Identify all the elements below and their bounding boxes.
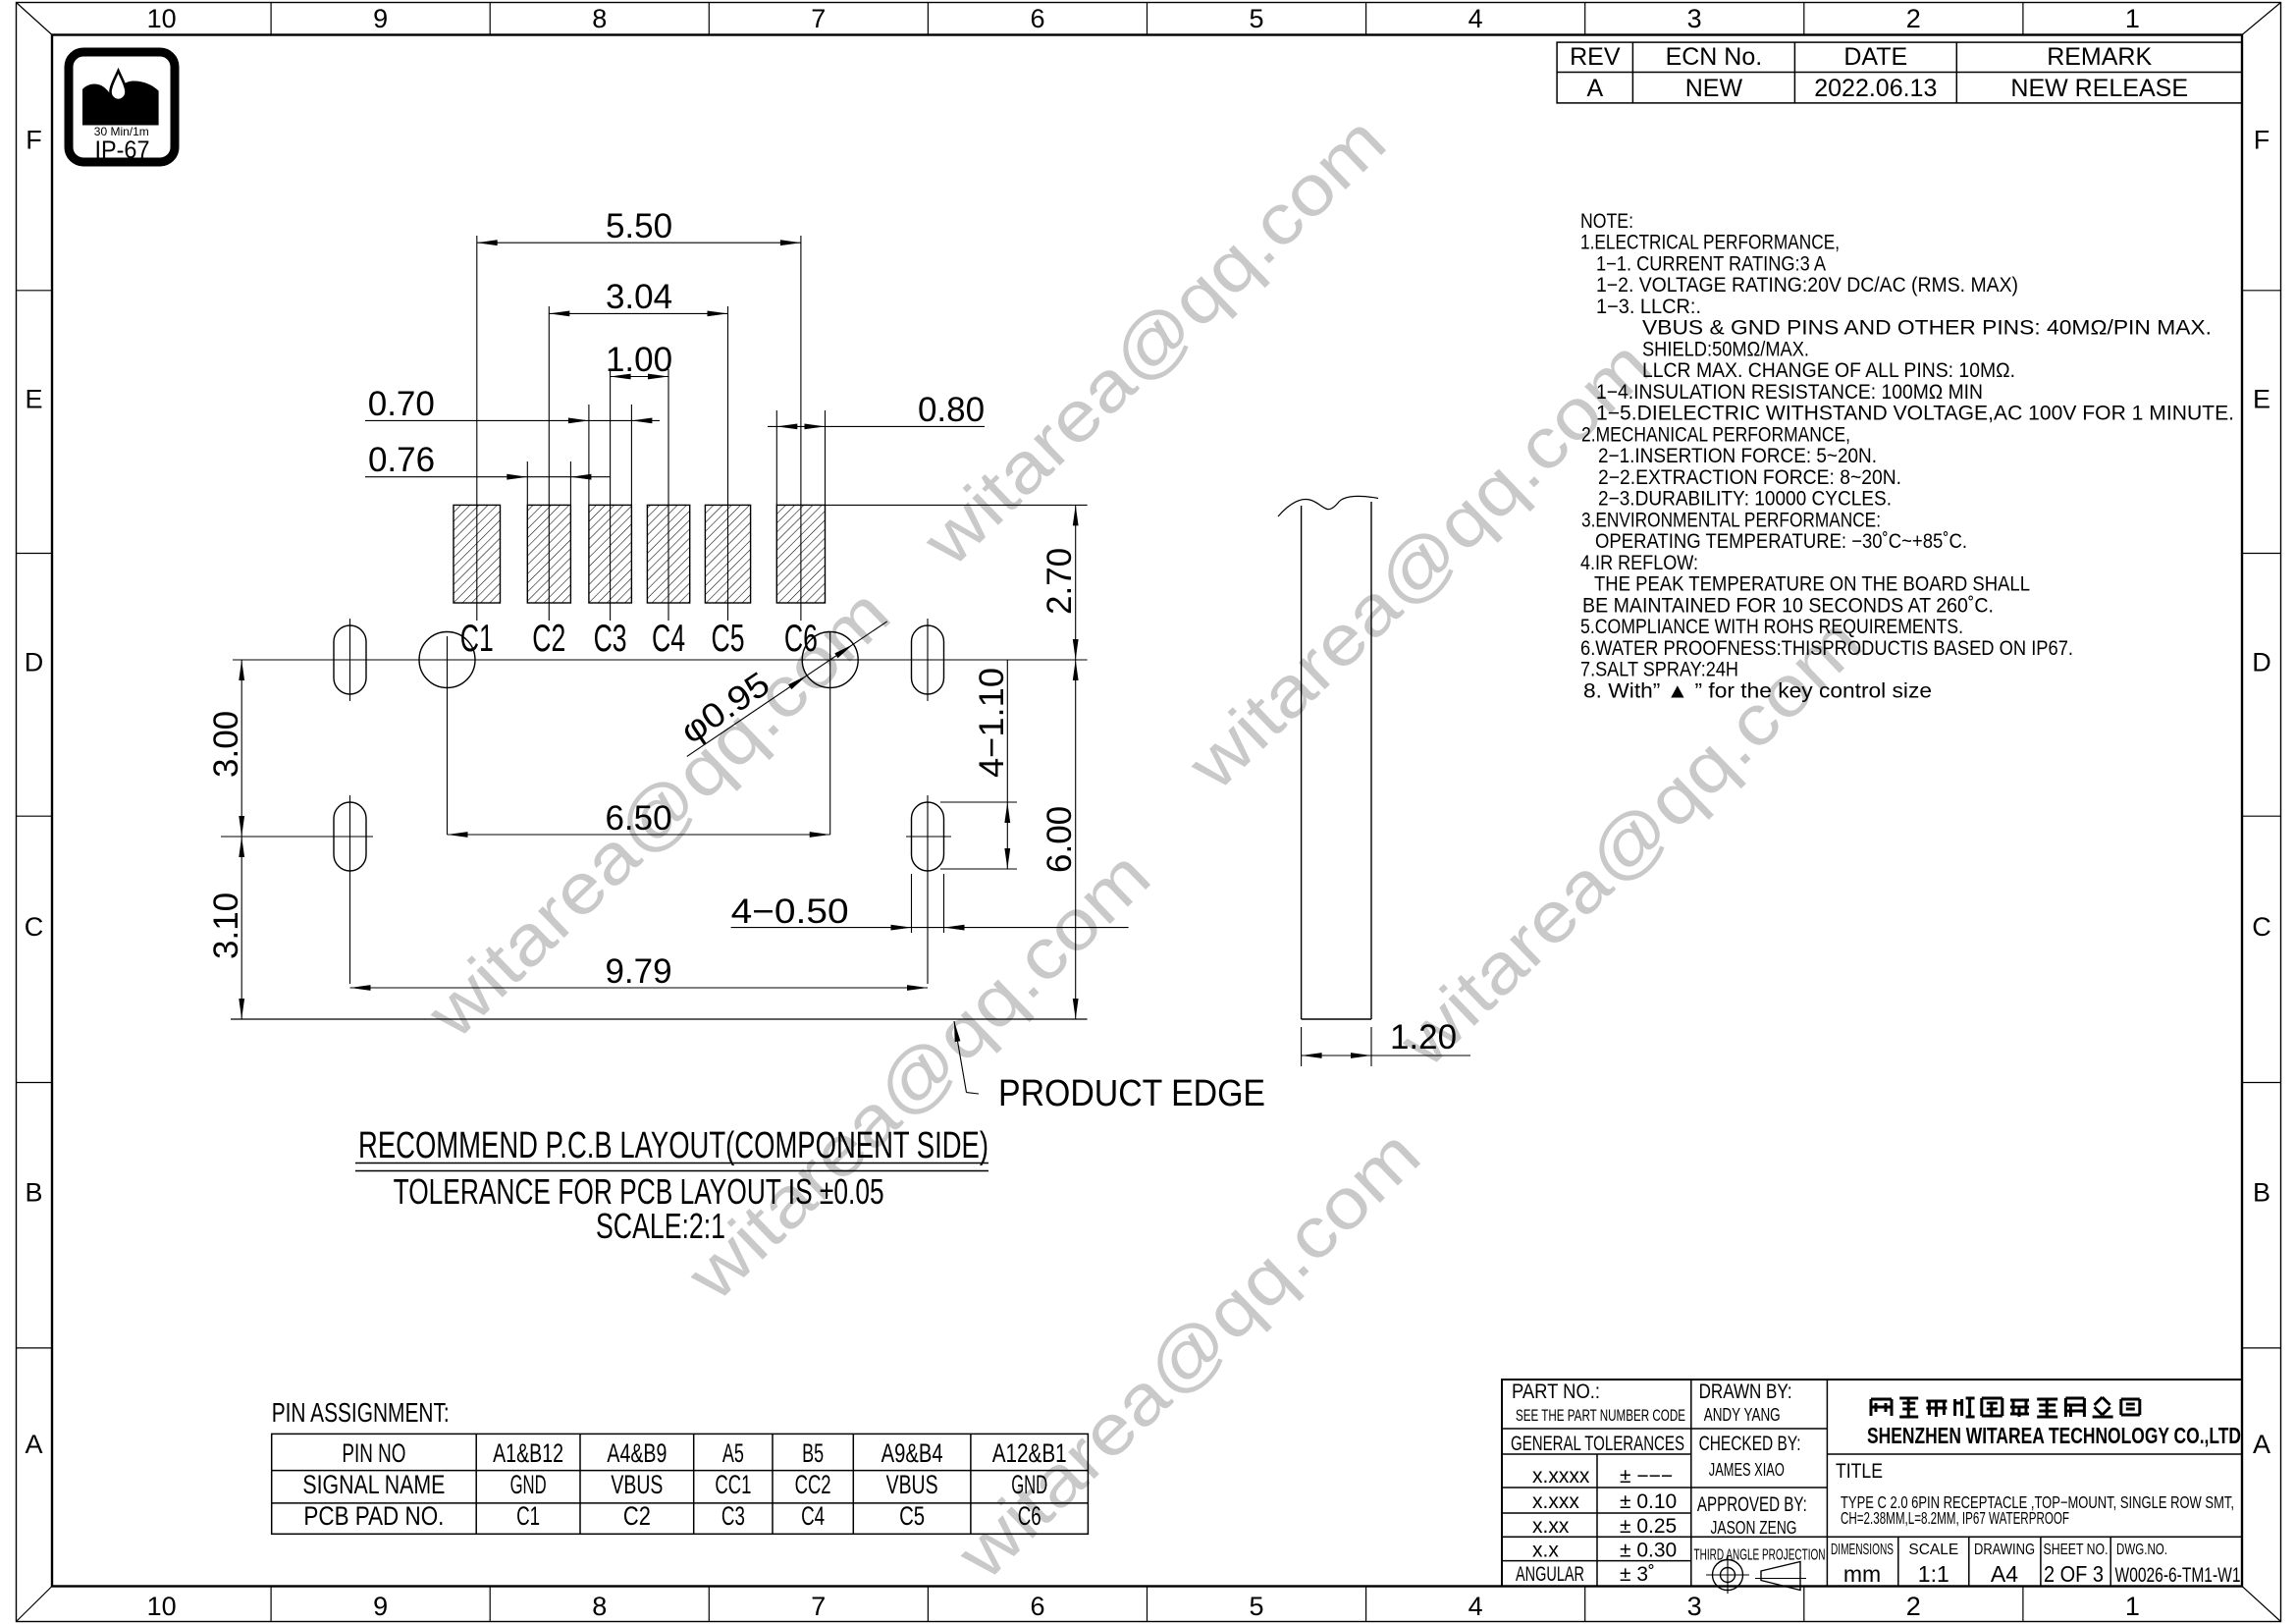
- oval pad bottom-left: [334, 802, 366, 871]
- watermark 2 witarea@qq.com: [1173, 325, 1666, 805]
- oval bottom-right horizontal centerline: [906, 836, 951, 838]
- svg-text:REV: REV: [1570, 43, 1621, 71]
- svg-text:2: 2: [1906, 4, 1921, 33]
- svg-text:NEW: NEW: [1685, 75, 1743, 102]
- svg-text:C4: C4: [652, 618, 685, 660]
- svg-text:x.xx: x.xx: [1532, 1515, 1570, 1538]
- svg-text:9: 9: [373, 1592, 388, 1621]
- svg-text:9.79: 9.79: [605, 952, 671, 991]
- oval pad top-right: [912, 625, 944, 694]
- svg-text:ECN No.: ECN No.: [1666, 43, 1763, 71]
- svg-text:PRODUCT EDGE: PRODUCT EDGE: [998, 1073, 1265, 1114]
- svg-text:E: E: [2253, 385, 2270, 414]
- oval pad top-left: [334, 625, 366, 694]
- svg-text:8: 8: [592, 4, 607, 33]
- svg-text:C2: C2: [532, 618, 565, 660]
- pin assignment table: [272, 1434, 1089, 1534]
- svg-text:SHENZHEN WITAREA TECHNOLOGY CO: SHENZHEN WITAREA TECHNOLOGY CO.,LTD: [1867, 1423, 2241, 1448]
- svg-text:1−1. CURRENT RATING:3 A: 1−1. CURRENT RATING:3 A: [1596, 253, 1826, 276]
- dimension 2.70: [826, 505, 1088, 660]
- svg-text:± 0.25: ± 0.25: [1620, 1515, 1677, 1538]
- dimension 3.00: [207, 660, 245, 837]
- svg-text:A9&B4: A9&B4: [881, 1438, 943, 1468]
- svg-text:B5: B5: [802, 1438, 824, 1468]
- svg-text:A1&B12: A1&B12: [493, 1438, 563, 1468]
- oval top-right centerline: [927, 619, 929, 701]
- svg-text:C6: C6: [1018, 1501, 1041, 1531]
- pad C4 centerline: [667, 369, 669, 621]
- pad C1 (hatched SMT pad): [454, 505, 501, 603]
- svg-text:SHEET NO.: SHEET NO.: [2044, 1542, 2109, 1558]
- svg-text:PCB PAD NO.: PCB PAD NO.: [303, 1501, 444, 1531]
- mounting hole circle left with center cross: [419, 632, 475, 688]
- svg-text:PIN ASSIGNMENT:: PIN ASSIGNMENT:: [272, 1397, 450, 1428]
- svg-text:3: 3: [1687, 1592, 1702, 1621]
- title block texts: [1511, 1380, 1826, 1586]
- pad C3 centerline: [610, 369, 612, 621]
- dimension 1.00: [606, 341, 672, 379]
- svg-text:7.SALT SPRAY:24H: 7.SALT SPRAY:24H: [1580, 659, 1738, 681]
- svg-text:± 0.30: ± 0.30: [1620, 1540, 1677, 1562]
- svg-text:x.x: x.x: [1532, 1540, 1559, 1562]
- company name (Chinese): [1871, 1397, 2140, 1417]
- svg-text:2: 2: [1906, 1592, 1921, 1621]
- dimension 5.50: [477, 207, 801, 245]
- watermark 6 witarea@qq.com: [1384, 602, 1877, 1082]
- svg-text:C4: C4: [801, 1501, 825, 1531]
- svg-text:2−2.EXTRACTION FORCE: 8~20: 2−2.EXTRACTION FORCE: 8~20N.: [1598, 466, 1901, 489]
- svg-text:4.IR REFLOW:: 4.IR REFLOW:: [1580, 552, 1698, 574]
- svg-text:5.50: 5.50: [606, 207, 672, 245]
- svg-text:1.ELECTRICAL PERFORMANCE,: 1.ELECTRICAL PERFORMANCE,: [1580, 232, 1840, 254]
- svg-text:1.00: 1.00: [606, 341, 672, 379]
- svg-text:DRAWING: DRAWING: [1974, 1542, 2035, 1558]
- svg-text:2−1.INSERTION FORCE: 5~20N.: 2−1.INSERTION FORCE: 5~20N.: [1598, 445, 1877, 467]
- svg-text:6: 6: [1030, 4, 1044, 33]
- svg-text:9: 9: [373, 4, 388, 33]
- dimension 6.00: [1041, 660, 1079, 1019]
- dimension 3.10: [207, 837, 245, 1019]
- svg-text:± 0.10: ± 0.10: [1620, 1490, 1677, 1513]
- svg-text:LLCR MAX. CHANGE OF ALL P: LLCR MAX. CHANGE OF ALL PINS: 10MΩ.: [1642, 359, 2015, 382]
- svg-text:B: B: [25, 1178, 42, 1208]
- svg-text:CC1: CC1: [715, 1470, 751, 1499]
- svg-text:5: 5: [1249, 1592, 1263, 1621]
- extension lines pad C2 edges: [526, 461, 528, 505]
- svg-text:ANDY YANG: ANDY YANG: [1704, 1405, 1781, 1425]
- view title: RECOMMEND P.C.B LAYOUT: [355, 1125, 988, 1171]
- svg-text:6: 6: [1030, 1592, 1044, 1621]
- svg-text:± 3˚: ± 3˚: [1620, 1563, 1655, 1586]
- svg-text:3.00: 3.00: [207, 711, 245, 778]
- svg-text:± −−−: ± −−−: [1620, 1465, 1673, 1488]
- watermark 1 witarea@qq.com: [908, 101, 1401, 581]
- svg-text:CH=2.38MM,L=8.2MM, IP67 WATE: CH=2.38MM,L=8.2MM, IP67 WATERPROOF: [1841, 1508, 2069, 1528]
- dimension 4-0.50: [731, 874, 1129, 933]
- svg-text:VBUS: VBUS: [611, 1470, 663, 1499]
- svg-text:B: B: [2253, 1178, 2270, 1208]
- dimension 4-1.10: [940, 660, 1017, 869]
- watermark 3 witarea@qq.com: [412, 573, 905, 1054]
- svg-text:F: F: [2254, 126, 2270, 155]
- svg-text:7: 7: [811, 4, 826, 33]
- svg-text:2.MECHANICAL PERFORMANCE,: 2.MECHANICAL PERFORMANCE,: [1581, 423, 1850, 446]
- extension lines pad C3 edges: [588, 405, 590, 505]
- svg-text:D: D: [25, 647, 44, 677]
- svg-text:4: 4: [1468, 4, 1483, 33]
- svg-text:C: C: [25, 912, 44, 942]
- dimension 1.20: [1302, 1018, 1470, 1066]
- svg-text:2.70: 2.70: [1041, 548, 1079, 615]
- svg-text:7: 7: [811, 1592, 826, 1621]
- oval bottom-left horizontal centerline: [221, 836, 373, 838]
- third angle projection symbol: [1706, 1556, 1806, 1594]
- oval bottom-right centerline: [927, 795, 929, 984]
- watermark 5 witarea@qq.com: [942, 1114, 1435, 1595]
- watermark 4 witarea@qq.com: [672, 836, 1165, 1316]
- title cell texts: [1836, 1460, 2234, 1528]
- svg-text:3.04: 3.04: [606, 278, 672, 316]
- svg-text:SEE THE PART NUMBER CODE: SEE THE PART NUMBER CODE: [1516, 1406, 1685, 1425]
- svg-text:6.50: 6.50: [605, 799, 671, 838]
- pad C1 centerline: [476, 236, 478, 621]
- svg-text:DRAWN BY:: DRAWN BY:: [1699, 1380, 1792, 1403]
- svg-text:REMARK: REMARK: [2047, 43, 2152, 71]
- svg-text:0.70: 0.70: [368, 385, 435, 423]
- svg-text:C5: C5: [899, 1501, 925, 1531]
- oval pad bottom-right: [912, 802, 944, 871]
- oval bottom-left centerline: [349, 795, 351, 984]
- svg-text:E: E: [25, 385, 42, 414]
- svg-text:1:1: 1:1: [1918, 1561, 1949, 1587]
- svg-text:W0026-6-TM1-W1: W0026-6-TM1-W1: [2115, 1564, 2241, 1587]
- svg-text:DWG.NO.: DWG.NO.: [2116, 1542, 2167, 1558]
- svg-text:RECOMMEND P.C.B LAYOUT(COMPO: RECOMMEND P.C.B LAYOUT(COMPONENT SIDE): [358, 1125, 988, 1166]
- svg-text:A: A: [1586, 75, 1603, 102]
- product bottom edge line: [231, 1018, 1088, 1020]
- svg-text:A4: A4: [1991, 1561, 2018, 1587]
- svg-text:SCALE: SCALE: [1908, 1542, 1958, 1558]
- revision table: [1557, 42, 2242, 103]
- svg-text:C3: C3: [594, 618, 627, 660]
- notes text block: [1580, 210, 2234, 702]
- svg-text:mm: mm: [1843, 1561, 1881, 1587]
- IP-67 logo: [69, 52, 175, 164]
- svg-text:C: C: [2252, 912, 2271, 942]
- pad C6 (hatched SMT pad): [776, 505, 825, 603]
- svg-text:TITLE: TITLE: [1836, 1460, 1883, 1483]
- svg-text:1−5.DIELECTRIC WITHSTAND VOL: 1−5.DIELECTRIC WITHSTAND VOLTAGE,AC 100V…: [1596, 403, 2234, 425]
- svg-text:CHECKED BY:: CHECKED BY:: [1699, 1433, 1801, 1455]
- svg-text:DATE: DATE: [1843, 43, 1907, 71]
- title block: [1502, 1380, 2242, 1587]
- svg-text:3.10: 3.10: [207, 893, 245, 959]
- pad C5 centerline: [727, 306, 729, 621]
- extension lines pad C6 edges: [775, 410, 777, 505]
- svg-text:8: 8: [592, 1592, 607, 1621]
- oval top-left centerline: [349, 619, 351, 701]
- svg-text:5: 5: [1249, 4, 1263, 33]
- svg-text:A4&B9: A4&B9: [607, 1438, 667, 1468]
- pad C2 (hatched SMT pad): [527, 505, 570, 603]
- dimension 3.04: [549, 278, 727, 316]
- svg-text:GENERAL TOLERANCES: GENERAL TOLERANCES: [1511, 1433, 1684, 1455]
- svg-text:IP-67: IP-67: [95, 136, 150, 164]
- svg-text:1−3. LLCR:.: 1−3. LLCR:.: [1596, 296, 1701, 318]
- svg-text:C2: C2: [623, 1501, 651, 1531]
- svg-text:A5: A5: [722, 1438, 744, 1468]
- pad C4 (hatched SMT pad): [647, 505, 689, 603]
- svg-text:A12&B1: A12&B1: [992, 1438, 1067, 1468]
- svg-text:SIGNAL NAME: SIGNAL NAME: [302, 1470, 445, 1499]
- dimension 0.76: [365, 441, 610, 480]
- svg-text:1: 1: [2125, 4, 2140, 33]
- svg-text:VBUS: VBUS: [886, 1470, 938, 1499]
- svg-text:SCALE:2:1: SCALE:2:1: [596, 1206, 725, 1246]
- svg-text:2−3.DURABILITY: 10000 CYCLES: 2−3.DURABILITY: 10000 CYCLES.: [1598, 488, 1892, 511]
- svg-text:OPERATING TEMPERATURE: −30˚C: OPERATING TEMPERATURE: −30˚C~+85˚C.: [1595, 530, 1967, 553]
- svg-text:8. With” ▲ ” for the key: 8. With” ▲ ” for the key control size: [1583, 679, 1932, 702]
- svg-text:4−0.50: 4−0.50: [731, 893, 849, 931]
- svg-text:ANGULAR: ANGULAR: [1516, 1563, 1584, 1586]
- leader and label dia 0.95: [673, 622, 886, 757]
- svg-text:CC2: CC2: [795, 1470, 831, 1499]
- svg-text:1−4.INSULATION RESISTANCE: 1: 1−4.INSULATION RESISTANCE: 100MΩ MIN: [1596, 381, 1983, 404]
- pad C3 (hatched SMT pad): [589, 505, 632, 603]
- svg-text:1−2. VOLTAGE RATING:20V DC/: 1−2. VOLTAGE RATING:20V DC/AC (RMS. MAX): [1596, 274, 2018, 297]
- svg-text:F: F: [26, 126, 42, 155]
- svg-text:VBUS & GND PINS AND OTHER: VBUS & GND PINS AND OTHER PINS: 40MΩ/PIN…: [1642, 317, 2212, 340]
- svg-text:10: 10: [147, 1592, 177, 1621]
- svg-text:10: 10: [147, 4, 177, 33]
- svg-text:4: 4: [1468, 1592, 1483, 1621]
- dimension 6.50: [448, 799, 830, 838]
- svg-text:0.76: 0.76: [368, 441, 435, 479]
- svg-text:C1: C1: [516, 1501, 540, 1531]
- svg-text:x.xxxx: x.xxxx: [1532, 1465, 1590, 1488]
- svg-text:6.WATER PROOFNESS:THISPRODUCT: 6.WATER PROOFNESS:THISPRODUCTIS BASED ON…: [1580, 637, 2073, 660]
- pad C5 (hatched SMT pad): [705, 505, 750, 603]
- svg-text:6.00: 6.00: [1041, 806, 1079, 873]
- svg-text:3.ENVIRONMENTAL PERFORMANCE:: 3.ENVIRONMENTAL PERFORMANCE:: [1581, 509, 1881, 531]
- svg-text:x.xxx: x.xxx: [1532, 1490, 1579, 1513]
- dimension 0.80: [768, 391, 985, 429]
- product edge leader and label: [954, 1021, 1265, 1114]
- svg-text:1.20: 1.20: [1390, 1018, 1457, 1056]
- svg-text:APPROVED BY:: APPROVED BY:: [1697, 1493, 1807, 1516]
- svg-text:BE MAINTAINED FOR 10 SECON: BE MAINTAINED FOR 10 SECONDS AT 260˚C.: [1582, 594, 1994, 617]
- svg-text:C3: C3: [721, 1501, 745, 1531]
- svg-text:PIN NO: PIN NO: [342, 1438, 405, 1468]
- dimension 9.79: [350, 952, 929, 991]
- svg-text:A: A: [2253, 1430, 2270, 1459]
- svg-text:THE PEAK TEMPERATURE ON TH: THE PEAK TEMPERATURE ON THE BOARD SHALL: [1594, 573, 2030, 596]
- svg-text:PART NO.:: PART NO.:: [1512, 1380, 1600, 1403]
- svg-text:DIMENSIONS: DIMENSIONS: [1831, 1542, 1894, 1558]
- svg-text:GND: GND: [1011, 1470, 1047, 1499]
- svg-text:2 OF 3: 2 OF 3: [2044, 1561, 2104, 1587]
- border corner diagonals: [17, 3, 53, 35]
- svg-text:SHIELD:50MΩ/MAX.: SHIELD:50MΩ/MAX.: [1642, 338, 1809, 360]
- svg-text:NEW RELEASE: NEW RELEASE: [2010, 75, 2188, 102]
- svg-text:4−1.10: 4−1.10: [973, 668, 1011, 778]
- svg-text:3: 3: [1687, 4, 1702, 33]
- svg-text:THIRD ANGLE PROJECTION: THIRD ANGLE PROJECTION: [1694, 1547, 1826, 1564]
- pad labels C1-C6: [460, 618, 818, 660]
- pad C2 centerline: [548, 306, 550, 621]
- svg-text:1: 1: [2125, 1592, 2140, 1621]
- svg-text:C5: C5: [712, 618, 745, 660]
- svg-text:0.80: 0.80: [918, 391, 985, 429]
- pad C6 centerline: [800, 236, 802, 621]
- svg-text:JASON ZENG: JASON ZENG: [1711, 1518, 1797, 1538]
- dimension 0.70: [365, 385, 660, 423]
- svg-text:GND: GND: [510, 1470, 547, 1499]
- title block bottom row: [1831, 1542, 2241, 1587]
- side view outline with break line: [1278, 496, 1378, 1019]
- svg-text:JAMES XIAO: JAMES XIAO: [1709, 1460, 1785, 1480]
- mounting centerline Y1: [233, 659, 1088, 661]
- svg-text:NOTE:: NOTE:: [1580, 210, 1633, 233]
- mounting hole circle right (dia 0.95): [802, 632, 858, 688]
- svg-text:A: A: [25, 1430, 42, 1459]
- svg-text:D: D: [2252, 647, 2271, 677]
- svg-text:2022.06.13: 2022.06.13: [1814, 75, 1937, 102]
- svg-text:5.COMPLIANCE WITH ROHS REQU: 5.COMPLIANCE WITH ROHS REQUIREMENTS.: [1580, 616, 1963, 638]
